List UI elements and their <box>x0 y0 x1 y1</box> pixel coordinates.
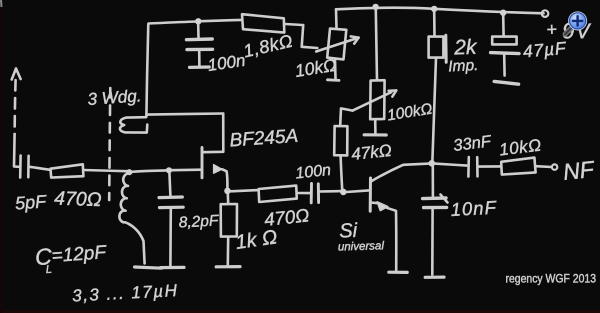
capacitor 10nF <box>423 166 448 275</box>
svg-text:regency WGF 2013: regency WGF 2013 <box>506 273 597 286</box>
svg-text:47µF: 47µF <box>522 38 568 62</box>
antenna arrow <box>12 69 21 167</box>
resistor 470 Ohm input <box>51 164 127 177</box>
node top-left junction <box>195 18 201 24</box>
node rail 47uF <box>500 10 506 16</box>
ground 100k <box>364 133 386 136</box>
ground 10nF <box>425 276 444 279</box>
ground emitter <box>389 271 407 274</box>
svg-text:5pF: 5pF <box>14 191 47 213</box>
node tank-top junction <box>126 169 132 175</box>
wire riser to top rail <box>146 22 197 117</box>
ground 1k <box>216 265 240 268</box>
capacitor 100n decoupling <box>187 24 213 67</box>
svg-text:2k: 2k <box>453 36 478 60</box>
capacitor 33nF <box>468 157 500 177</box>
capacitor 100n coupling <box>311 184 340 203</box>
svg-text:=12pF: =12pF <box>51 242 108 267</box>
resistor 1,8k <box>242 14 317 48</box>
magnifier icon <box>565 12 587 34</box>
trimmer resistor 100k <box>340 10 396 134</box>
svg-text:470Ω: 470Ω <box>54 188 102 212</box>
wire to gate <box>172 168 202 171</box>
resistor 1k <box>221 194 237 265</box>
svg-text:3 Wdg.: 3 Wdg. <box>87 86 142 109</box>
transistor Si universal <box>347 164 430 270</box>
JFET BF245A <box>202 114 227 190</box>
corner mark <box>0 0 3 7</box>
trimmer resistor 10k regen <box>316 9 358 80</box>
svg-text:Si: Si <box>339 220 358 243</box>
ground 8,2pF <box>161 266 185 269</box>
resistor 47k <box>334 126 347 190</box>
coil L 3,3-17uH <box>119 173 144 263</box>
node source junction <box>224 188 231 195</box>
wire drain rail <box>146 114 223 115</box>
capacitor 5pF <box>20 156 50 178</box>
coupling coil 3 Wdg <box>120 117 147 132</box>
svg-text:8,2pF: 8,2pF <box>178 212 220 231</box>
ferrite rod (dashed) <box>109 88 110 200</box>
top rail <box>336 8 544 14</box>
wire source to 470 <box>231 190 258 191</box>
wire collector to output <box>435 164 467 166</box>
svg-text:universal: universal <box>338 240 385 253</box>
capacitor 47uF <box>491 15 519 84</box>
wire to 1,8k <box>202 20 242 21</box>
svg-text:NF: NF <box>562 156 597 185</box>
node collector junction <box>429 160 436 167</box>
node rail 100k <box>372 4 378 10</box>
resistor 470 Ohm source <box>259 186 310 202</box>
resistor 10k output <box>501 158 551 175</box>
node base junction <box>340 189 347 196</box>
svg-text:Imp.: Imp. <box>448 57 479 76</box>
svg-text:10nF: 10nF <box>450 197 498 220</box>
ground coil <box>135 267 162 268</box>
svg-text:+: + <box>546 19 557 39</box>
inductor 2k choke <box>429 12 447 161</box>
wire tank to gate <box>132 170 166 171</box>
node 8p2 junction <box>166 167 172 173</box>
terminal NF <box>552 164 557 169</box>
terminal +9V <box>542 10 549 17</box>
node rail choke <box>431 6 437 12</box>
bottom border artifact <box>0 310 600 313</box>
label CL=12pF <box>34 242 108 276</box>
trimmer capacitor 8,2pF <box>159 173 183 266</box>
